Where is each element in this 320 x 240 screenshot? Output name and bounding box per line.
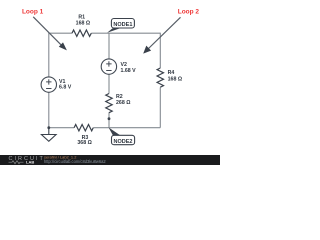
svg-text:368 Ω: 368 Ω (77, 140, 91, 146)
annotation Loop 2 arrow (143, 17, 180, 53)
resistor R1 (72, 14, 91, 36)
svg-text:R1: R1 (78, 14, 85, 20)
svg-text:R2: R2 (116, 94, 123, 100)
annotation Loop 1 arrow (33, 17, 67, 51)
wire bottom-right segment (93, 127, 160, 129)
wire bottom-left segment (49, 127, 74, 129)
node NODE2 flag (109, 127, 135, 144)
svg-text:NODE2: NODE2 (114, 139, 133, 145)
footer CircuitLab logo (9, 156, 45, 165)
resistor R3 (74, 124, 93, 145)
wire right vertical upper (159, 33, 161, 68)
svg-text:168 Ω: 168 Ω (168, 76, 182, 82)
svg-text:V1: V1 (59, 79, 66, 85)
voltage source V1 (41, 77, 72, 92)
svg-text:1.68 V: 1.68 V (121, 68, 137, 74)
resistor R2 (106, 94, 131, 113)
svg-text:Loop 2: Loop 2 (178, 9, 200, 16)
resistor R4 (157, 68, 182, 87)
junction dot on middle branch (108, 117, 111, 120)
node NODE1 flag (107, 19, 134, 33)
svg-text:268 Ω: 268 Ω (116, 100, 130, 106)
svg-text:V2: V2 (121, 62, 128, 68)
svg-text:6.8 V: 6.8 V (59, 85, 72, 91)
wire middle vertical between V2 and R2 (108, 74, 110, 93)
svg-text:NODE1: NODE1 (113, 22, 132, 28)
svg-text:Loop 1: Loop 1 (22, 8, 44, 15)
ground (41, 128, 56, 142)
svg-text:R4: R4 (168, 70, 175, 76)
wire left vertical lower (48, 92, 50, 127)
svg-text:168 Ω: 168 Ω (76, 21, 90, 27)
svg-text:http://circuitlab.com/c8d3ku8w: http://circuitlab.com/c8d3ku8w6a2 (44, 159, 106, 164)
junction dot at ground node (47, 126, 50, 129)
svg-text:LAB: LAB (26, 160, 34, 165)
voltage source V2 (101, 59, 136, 74)
footer bar (0, 155, 220, 165)
wire right vertical lower (159, 87, 161, 127)
wire left vertical upper (48, 33, 50, 77)
wire top-left segment (49, 32, 72, 34)
wire top-right segment (91, 32, 160, 34)
wire middle vertical lower (108, 112, 110, 127)
wire middle vertical upper (108, 33, 110, 59)
